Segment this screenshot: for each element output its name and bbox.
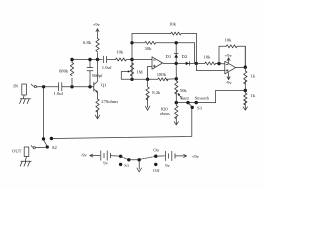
op-amp U2: [225, 61, 236, 74]
svg-text:6.8k: 6.8k: [83, 40, 92, 45]
wire 180k bus: [132, 78, 158, 80]
svg-text:+9v: +9v: [192, 154, 200, 159]
svg-text:D1: D1: [166, 54, 172, 59]
svg-text:680k: 680k: [59, 69, 69, 74]
svg-text:D2: D2: [182, 54, 188, 59]
svg-text:1M: 1M: [136, 69, 142, 74]
switch S1 (power, pole 1): [119, 155, 130, 168]
wire output long bus: [51, 108, 191, 138]
svg-text:1.0uf: 1.0uf: [54, 91, 64, 96]
node A (input junction): [42, 85, 45, 88]
svg-text:1.0uf: 1.0uf: [102, 65, 112, 70]
resistor 1k (upper): [244, 67, 256, 90]
resistor 6.8k: [83, 39, 99, 60]
svg-text:30k: 30k: [145, 46, 153, 51]
svg-text:-9v: -9v: [226, 80, 233, 85]
resistor 10k (to U2): [197, 54, 225, 65]
switch S2 (bypass): [36, 140, 58, 150]
switch S1 (power, pole 2): [140, 148, 159, 173]
ground (8.2k): [145, 100, 149, 110]
-9v supply (U2): [226, 73, 233, 85]
wire collector bus (top line): [72, 59, 102, 61]
resistor 10k (outer feedback, top): [132, 22, 197, 35]
svg-text:180k: 180k: [157, 72, 167, 77]
potentiometer 1M: [121, 63, 142, 79]
battery B1 9v: [101, 151, 120, 166]
ground (under input jack): [20, 95, 31, 104]
ground (under output jack): [20, 157, 31, 167]
potentiometer 50k Fuzz/Smooth: [175, 79, 210, 103]
ground (Q1 emitter): [95, 113, 99, 119]
resistor 30k (feedback): [132, 41, 195, 51]
svg-text:Q1: Q1: [101, 82, 107, 87]
svg-text:+9v: +9v: [93, 22, 101, 27]
svg-text:9v: 9v: [103, 161, 108, 166]
svg-text:50k: 50k: [180, 88, 188, 93]
wire to op-amp U2 + input: [197, 70, 225, 72]
svg-text:Off: Off: [153, 168, 160, 173]
resistor 8.2k: [146, 79, 161, 100]
svg-text:S2: S2: [52, 145, 58, 150]
svg-text:270ohms: 270ohms: [101, 99, 118, 104]
svg-text:S1: S1: [124, 163, 130, 168]
wire clip node down to pot: [175, 63, 177, 78]
ground (output divider): [243, 106, 247, 110]
switch S3: [188, 103, 203, 111]
svg-text:ohms: ohms: [160, 111, 170, 116]
svg-text:+9v: +9v: [225, 53, 233, 58]
resistor 270ohms: [96, 99, 119, 113]
wire input to node A: [37, 86, 59, 88]
svg-text:On: On: [153, 148, 159, 153]
capacitor 560pf: [87, 60, 103, 87]
input jack J1: [13, 84, 36, 95]
transistor Q1: [94, 60, 108, 100]
resistor 10k (U2 feedback): [225, 38, 246, 67]
wire U2 output: [236, 66, 246, 68]
wire U2 feedback: [219, 46, 226, 63]
output jack J2: [12, 146, 35, 157]
capacitor C2 1.0uf (coupling): [102, 56, 112, 70]
+9v supply (U2): [225, 53, 233, 63]
node collector junction dots: [70, 58, 73, 61]
wire D1 branch vertical: [175, 43, 177, 64]
node base junction dots: [70, 85, 73, 88]
wire 30k feedback down-leg: [194, 43, 196, 63]
wire output tap: [216, 91, 246, 103]
wire 10k top feedback down-leg: [196, 34, 198, 71]
-9v rail label/arrow: [81, 153, 100, 158]
svg-text:-9v: -9v: [81, 153, 88, 158]
node inverting bus (vertical): [131, 34, 133, 80]
svg-text:OUT: OUT: [12, 148, 22, 153]
resistor 1k (lower): [244, 91, 256, 107]
svg-text:8.2k: 8.2k: [152, 90, 161, 95]
ground (820 ohms): [174, 120, 178, 125]
resistor 180k: [157, 72, 177, 81]
wire C1 to Q1 base: [62, 86, 94, 88]
svg-text:9v: 9v: [165, 163, 170, 168]
diode D1: [166, 53, 179, 59]
resistor 680k: [59, 60, 74, 87]
svg-text:1k: 1k: [250, 93, 255, 98]
svg-text:IN: IN: [13, 84, 19, 89]
wire battery center tap: [129, 159, 139, 161]
battery B2 9v: [157, 151, 175, 168]
svg-text:10k: 10k: [225, 38, 233, 43]
resistor 820 ohms: [160, 103, 178, 120]
svg-text:10k: 10k: [116, 50, 124, 55]
svg-text:S3: S3: [197, 106, 203, 111]
resistor 10k (input to op-amp): [107, 50, 132, 61]
wire op-amp U1 output: [163, 62, 197, 64]
svg-text:10k: 10k: [204, 54, 212, 59]
+9v rail label/arrow: [175, 154, 200, 159]
capacitor C1 1.0uf: [54, 83, 64, 96]
svg-text:1k: 1k: [250, 74, 255, 79]
wire node A down to S2: [43, 87, 45, 139]
wire smooth bus: [176, 102, 215, 104]
svg-text:Smooth: Smooth: [195, 95, 210, 100]
svg-text:10k: 10k: [169, 22, 177, 27]
+9v supply (top): [93, 22, 101, 39]
svg-text:Fuzz: Fuzz: [180, 95, 189, 100]
op-amp U1: [132, 57, 163, 80]
ground (battery center): [137, 160, 142, 172]
diode D2: [182, 54, 190, 65]
